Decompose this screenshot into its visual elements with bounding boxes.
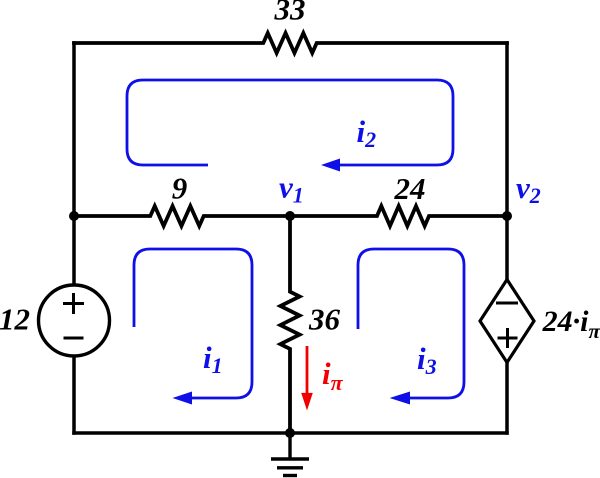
wire dependent source to bottom: [505, 362, 509, 433]
node ground (290,433): [285, 428, 295, 438]
wire bottom: [74, 431, 507, 435]
wire left upper: [72, 43, 76, 216]
wire middle with resistor 9 and resistor 24: [74, 206, 507, 226]
svg-text:i3: i3: [417, 341, 437, 379]
svg-text:i1: i1: [203, 340, 223, 378]
current arrow ipi: [301, 346, 313, 411]
node v1 (290,216): [285, 211, 295, 221]
ground: [271, 433, 309, 476]
wire source to bottom: [72, 355, 76, 433]
svg-text:v1: v1: [279, 170, 304, 208]
svg-text:9: 9: [172, 171, 188, 206]
svg-text:24: 24: [394, 171, 426, 206]
mesh loop i1: [134, 249, 252, 405]
wire top with resistor 33: [74, 33, 507, 53]
svg-text:36: 36: [308, 302, 341, 337]
wire right upper: [505, 43, 509, 280]
dependent source 24*ipi: [480, 280, 534, 363]
svg-text:v2: v2: [516, 170, 541, 208]
mesh loop i3: [358, 249, 464, 405]
node left (74,216): [69, 211, 79, 221]
wire center vertical with resistor 36: [280, 216, 299, 433]
svg-text:12: 12: [0, 302, 30, 337]
voltage source V1 12V: [39, 285, 110, 356]
svg-text:i2: i2: [357, 114, 377, 152]
wire left to source: [72, 216, 76, 286]
node v2 (507,216): [502, 211, 512, 221]
svg-text:iπ: iπ: [322, 356, 344, 395]
svg-text:24·iπ: 24·iπ: [542, 305, 600, 343]
mesh loop i2: [127, 80, 453, 172]
svg-text:33: 33: [274, 0, 306, 27]
